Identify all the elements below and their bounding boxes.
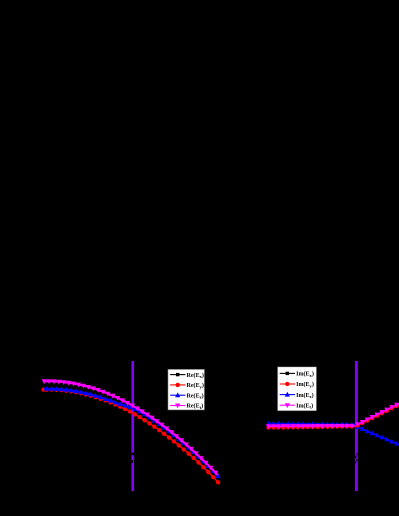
- svg-text:Re(Ey): Re(Ey): [187, 382, 204, 389]
- left plot: red curve Re(Ey) circle markers: [41, 387, 220, 484]
- right plot: red branch Im(Ey) rising after interface: [356, 405, 399, 426]
- left plot: black tick-label marks over purple line: [132, 453, 134, 456]
- left plot: magenta curve Re(Et) line: [44, 381, 218, 475]
- left plot: magenta curve Re(Et) triangle-down markers: [42, 379, 219, 475]
- left plot: blue curve Re(Ez) triangle-up markers: [44, 386, 221, 478]
- right plot legend box Im(E) components: [278, 367, 317, 411]
- svg-text:Re(Ex): Re(Ex): [187, 372, 204, 379]
- left plot legend box Re(E) components: [168, 369, 205, 410]
- svg-text:Re(Et): Re(Et): [187, 403, 204, 410]
- left plot: red curve Re(Ey) line: [44, 390, 218, 483]
- right plot: magenta branch Im(Et) rising after interface: [356, 404, 399, 426]
- right plot: blue horizontal Im(Ez) pre-interface: [268, 424, 356, 425]
- right plot: black tick-label glyph over purple line: [355, 453, 358, 463]
- svg-text:Im(Ey): Im(Ey): [296, 381, 314, 388]
- left plot: blue curve Re(Ez) line: [44, 389, 218, 476]
- left plot: purple vertical interface line: [131, 361, 134, 491]
- right plot: magenta horizontal Im(Et) pre-interface: [268, 425, 356, 427]
- svg-text:Im(Ex): Im(Ex): [296, 371, 314, 378]
- svg-text:Im(Et): Im(Et): [296, 402, 313, 409]
- right plot: blue branch Im(Ez) falling after interface: [356, 427, 399, 445]
- svg-text:Im(Ez): Im(Ez): [296, 392, 314, 399]
- right plot: red horizontal Im(Ey) pre-interface: [268, 426, 356, 427]
- svg-text:Re(Ez): Re(Ez): [187, 392, 204, 399]
- right plot: purple vertical interface line: [355, 361, 358, 491]
